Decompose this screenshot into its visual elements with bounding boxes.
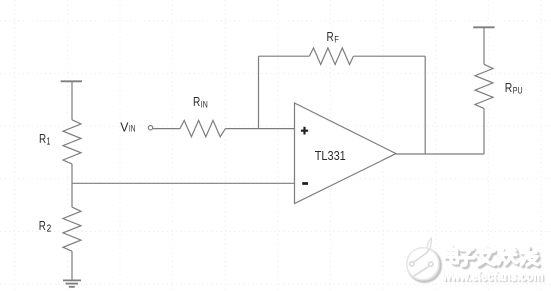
label RIN [193, 94, 208, 110]
svg-text:R: R [505, 80, 513, 95]
resistor R2 [63, 207, 81, 251]
power terminal bar (pull-up supply) [473, 26, 494, 28]
power terminal bar (left supply) [61, 80, 82, 82]
svg-text:www.elecfans.com: www.elecfans.com [441, 269, 543, 284]
watermark text elecfans chinese [446, 247, 540, 268]
resistor RIN [180, 120, 225, 136]
logo sprout tail [427, 238, 431, 249]
wire [71, 164, 73, 207]
wire [225, 128, 294, 130]
resistor R1 [63, 120, 81, 164]
svg-text:R: R [39, 218, 46, 233]
ground [63, 280, 81, 286]
svg-text:R: R [39, 131, 46, 146]
op-amp minus pin label [302, 182, 308, 185]
watermark logo circle [407, 238, 441, 281]
svg-text:R: R [193, 94, 200, 109]
svg-text:IN: IN [201, 100, 208, 110]
label RPU [505, 80, 523, 96]
op-amp U1 TL331 [295, 103, 397, 204]
svg-text:V: V [120, 120, 128, 135]
input terminal circle [148, 126, 152, 130]
label R1 [39, 131, 50, 148]
label VIN [120, 120, 135, 135]
label R2 [39, 218, 52, 235]
wire (minus input from divider) [72, 182, 295, 184]
resistor RPU [475, 64, 493, 108]
svg-text:F: F [334, 34, 339, 45]
wire (feedback right vertical) [424, 56, 426, 154]
svg-text:PU: PU [513, 86, 523, 96]
wire [259, 55, 310, 57]
watermark url www.elecfans.com [441, 269, 545, 286]
wire (feedback left vertical) [258, 56, 260, 128]
wire [71, 81, 73, 120]
resistor RF [309, 48, 353, 65]
op-amp plus pin label [301, 127, 308, 135]
wire [353, 55, 425, 57]
wire (output) [396, 153, 484, 155]
label RF [327, 29, 340, 45]
svg-text:1: 1 [47, 136, 51, 147]
svg-text:R: R [327, 29, 334, 44]
wire [483, 108, 485, 154]
wire [71, 251, 73, 280]
svg-text:TL331: TL331 [315, 148, 346, 163]
wire [153, 128, 180, 130]
wire [483, 27, 485, 64]
svg-text:2: 2 [47, 224, 52, 235]
svg-text:IN: IN [129, 124, 136, 134]
